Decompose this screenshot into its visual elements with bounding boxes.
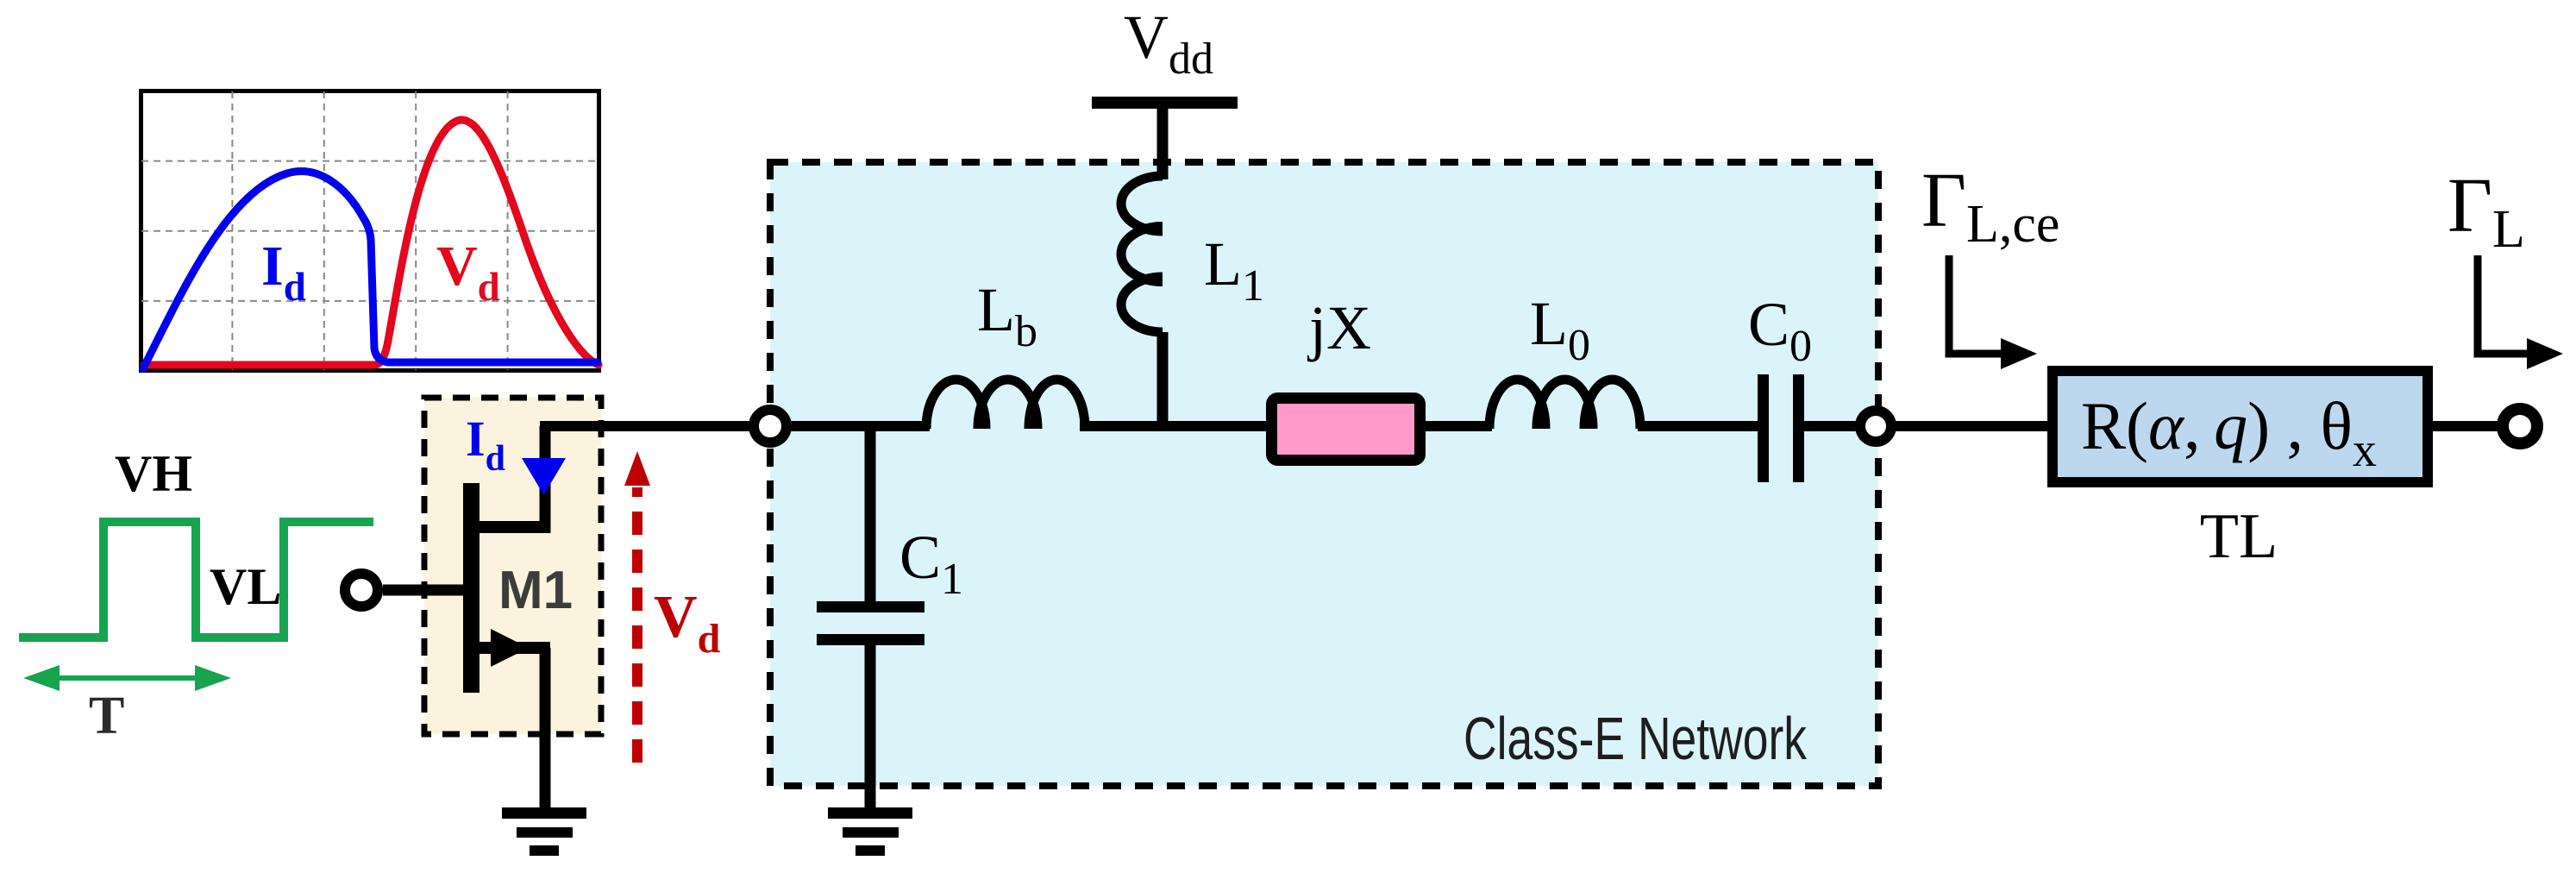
- main wire: Lb to jX: [1080, 421, 1269, 431]
- capacitor C1: [817, 431, 924, 811]
- svg-text:TL: TL: [2200, 501, 2278, 572]
- main wire: jX to L0: [1422, 421, 1492, 431]
- waveform inset box: [141, 91, 599, 371]
- Vd dashed arrow: [624, 451, 650, 763]
- Id arrow (blue triangle): [522, 458, 566, 495]
- capacitor C0: [1758, 374, 1804, 482]
- Id waveform curve (blue): [143, 172, 598, 368]
- svg-text:T: T: [89, 687, 124, 745]
- Class-E Network dashed box: [770, 162, 1878, 786]
- ground below C1: [828, 807, 912, 856]
- gate drive square wave: [19, 522, 373, 637]
- jX element box: [1272, 399, 1420, 461]
- svg-text:M1: M1: [498, 561, 573, 620]
- node at network output: [1860, 411, 1891, 442]
- main wire: drain to input node: [540, 421, 775, 431]
- node at network input: [754, 410, 787, 443]
- svg-text:Class-E Network: Class-E Network: [1463, 705, 1808, 772]
- Gamma L arrow: [2478, 255, 2563, 369]
- svg-text:VL: VL: [210, 558, 281, 615]
- main wire: L0 to C0: [1638, 421, 1760, 431]
- main wire: TL to load terminal: [2430, 421, 2503, 431]
- ground below M1: [502, 807, 586, 856]
- inductor Lb: [926, 380, 1085, 429]
- output terminal: [2503, 409, 2537, 443]
- M1 dashed box: [424, 398, 601, 734]
- transmission line TL box: [2053, 371, 2428, 482]
- inset grid: [141, 91, 599, 370]
- inductor L1: [1121, 176, 1163, 332]
- wire Vdd to L1: [1157, 109, 1169, 179]
- main wire: C0 to output node of network: [1802, 421, 2050, 431]
- period arrow T: [23, 665, 231, 691]
- wire L1 to main line: [1157, 332, 1169, 431]
- Gamma L,ce arrow: [1949, 255, 2037, 369]
- Vdd supply bar: [1092, 97, 1238, 109]
- main wire: node to Lb: [770, 421, 930, 431]
- inductor L0: [1489, 380, 1640, 429]
- Vd waveform curve (red): [144, 120, 599, 365]
- svg-text:jX: jX: [1307, 293, 1371, 362]
- transistor M1: [463, 426, 551, 811]
- input terminal: [345, 574, 378, 606]
- svg-text:VH: VH: [115, 445, 192, 502]
- gate wire: [383, 585, 467, 596]
